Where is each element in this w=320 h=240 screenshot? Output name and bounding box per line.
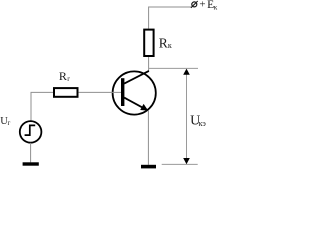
label Rk bbox=[159, 35, 172, 50]
dimension line Uke with arrowheads bbox=[183, 69, 190, 165]
wire: left corner from Rg down to source bbox=[31, 92, 53, 121]
wire: bottom reference line of Uke dimension bbox=[162, 163, 198, 165]
wire: Rk bottom to collector junction bbox=[148, 57, 150, 71]
transistor base bar bbox=[121, 78, 124, 106]
svg-text:R: R bbox=[159, 35, 168, 50]
source step symbol bbox=[25, 125, 36, 135]
label Ug bbox=[0, 116, 10, 127]
transistor collector lead bbox=[124, 71, 149, 84]
wire: source bottom to ground bbox=[30, 143, 32, 163]
wire: top rail from Rk up and right to +Ek terminal bbox=[149, 7, 191, 29]
svg-text:+: + bbox=[199, 0, 205, 11]
svg-text:R: R bbox=[59, 69, 67, 83]
resistor Rg bbox=[54, 88, 78, 97]
transistor VT circle bbox=[113, 71, 156, 114]
wire: top reference line of Uke dimension bbox=[149, 67, 198, 69]
ground bar (source) bbox=[23, 162, 39, 165]
wire: base wire from Rg to transistor bbox=[79, 91, 121, 93]
transistor emitter lead with arrow bbox=[124, 98, 148, 111]
wire: emitter down to ground bbox=[147, 111, 149, 165]
label Uke bbox=[190, 113, 206, 128]
svg-text:к: к bbox=[214, 3, 218, 12]
ground bar (emitter) bbox=[141, 165, 156, 169]
svg-text:г: г bbox=[67, 75, 70, 83]
label + Ek bbox=[199, 0, 217, 12]
svg-text:г: г bbox=[8, 119, 11, 127]
label Rg bbox=[59, 69, 70, 83]
terminal +Ek circle-with-slash bbox=[191, 1, 198, 8]
source Ug circle bbox=[20, 121, 42, 143]
resistor Rk bbox=[144, 30, 153, 56]
svg-text:кэ: кэ bbox=[199, 119, 207, 128]
svg-text:к: к bbox=[168, 41, 172, 50]
